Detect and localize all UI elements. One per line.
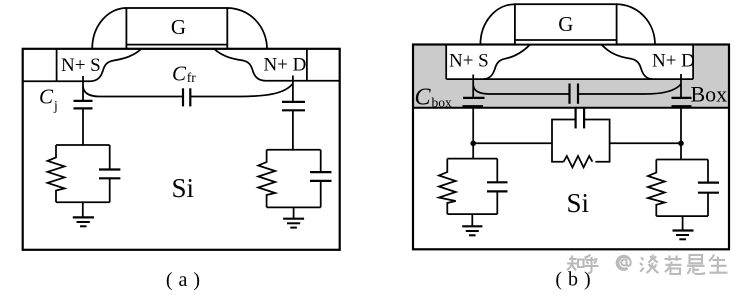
gate oxide line (a) [126,44,227,46]
wire Cfr to drain (a) [190,84,293,97]
svg-text:j: j [53,98,58,113]
RC network source (b): top wire [447,158,497,160]
watermark char dan [640,255,659,274]
svg-text:Si: Si [567,188,590,218]
RC network drain (a): top wire [267,149,321,151]
wire Cfr to drain (b) [578,84,681,94]
svg-text:G: G [558,12,573,36]
N+ source region boundary (a) [23,49,142,82]
buried oxide BOX layer (b) [414,46,728,108]
spacer left (a) [92,8,126,49]
capacitor Cj source (a) [74,101,93,109]
gate G (a) [126,8,227,49]
capacitor Cbox drain (b) [672,98,692,106]
watermark char sheng [709,255,728,273]
RC network source (a): bottom wire [56,201,110,203]
watermark char at [617,256,631,270]
island right edge (b) [692,45,694,80]
svg-text:box: box [432,95,453,110]
watermark char shi [687,255,705,274]
RC network drain (a): bottom wire [267,206,321,208]
N+ drain region boundary (a) [214,49,339,81]
wire drain Cj to RC network (a) [292,110,294,150]
junction dot drain (b) [678,141,684,147]
ground source (b) [462,214,482,235]
watermark zhihu [567,255,728,275]
island left edge (b) [445,45,447,80]
wire drain to Cj (a) [292,76,294,102]
N+ drain region boundary (b) [602,45,652,79]
gate oxide line (b) [515,39,617,41]
substrate RC loop (b) [552,120,610,162]
silicon island (b) [446,46,693,80]
junction dot source (b) [470,141,476,147]
ground drain (b) [673,216,694,239]
spacer right (b) [617,4,655,44]
wire Cbox source down (b) [472,106,474,143]
capacitor Cj drain (a) [282,102,305,110]
resistor Rsub drain (b) [648,160,665,217]
watermark char zhi [567,256,584,271]
wire source to Cfr (a) [83,87,183,97]
resistor Rsub source (a) [48,145,65,202]
svg-text:C: C [39,85,54,109]
watermark char ruo [665,256,682,275]
capacitor Cbox source (b) [463,98,485,106]
capacitor Cfr (b) [570,84,579,104]
capacitor Cfr (a) [183,88,190,106]
ground drain (a) [283,207,304,227]
drain region divider (a) [306,49,308,81]
RC network drain (b): bottom wire [656,215,708,217]
watermark char hu [584,255,599,274]
spacer left (b) [480,4,515,44]
RC network source (b): bottom wire [447,213,497,215]
RC network source (a): top wire [56,144,110,146]
ground source (a) [73,202,94,226]
svg-text:Box: Box [691,82,728,107]
svg-text:N+ S: N+ S [61,55,101,76]
substrate Si box (a) [23,49,340,250]
wire Cbox drain down (b) [680,106,682,143]
svg-text:Si: Si [172,173,195,203]
island bottom line (b) [446,78,693,80]
wire source to Cfr (b) [473,85,569,94]
capacitor Csub drain (b) [707,160,709,183]
wire loop to drain node (b) [610,142,681,144]
svg-text:C: C [415,85,432,111]
svg-text:fr: fr [187,70,196,85]
wire source to Cj (a) [82,76,84,101]
capacitor Csub source (a) [109,145,111,170]
wire drain node down to RC (b) [680,143,682,159]
RC network drain (b): top wire [656,159,708,161]
resistor Rsi (b) [564,156,593,167]
wire Cj to RC network (a) [82,108,84,145]
svg-text:C: C [172,62,187,86]
substrate coupling capacitor plates (b) [576,108,585,128]
svg-text:N+ D: N+ D [652,51,695,72]
substrate box (b) [413,45,729,250]
wire source node to loop (b) [473,142,552,144]
svg-text:N+ D: N+ D [264,55,307,76]
resistor Rsub drain (a) [258,150,275,208]
source region divider (a) [56,49,58,82]
gate G (b) [515,4,617,44]
wire drain to Cbox (b) [680,74,682,98]
capacitor Csub drain (a) [320,150,322,172]
wire source to Cbox (b) [472,75,474,98]
spacer right (a) [227,8,267,49]
BOX bottom line (b) [413,107,729,109]
capacitor Csub source (b) [496,159,498,183]
N+ source region boundary (b) [484,45,530,79]
svg-text:G: G [171,15,186,39]
svg-text:N+ S: N+ S [449,51,489,72]
wire source node down to RC (b) [472,143,474,158]
resistor Rsub source (b) [439,159,456,215]
svg-text:(a): (a) [166,269,206,291]
